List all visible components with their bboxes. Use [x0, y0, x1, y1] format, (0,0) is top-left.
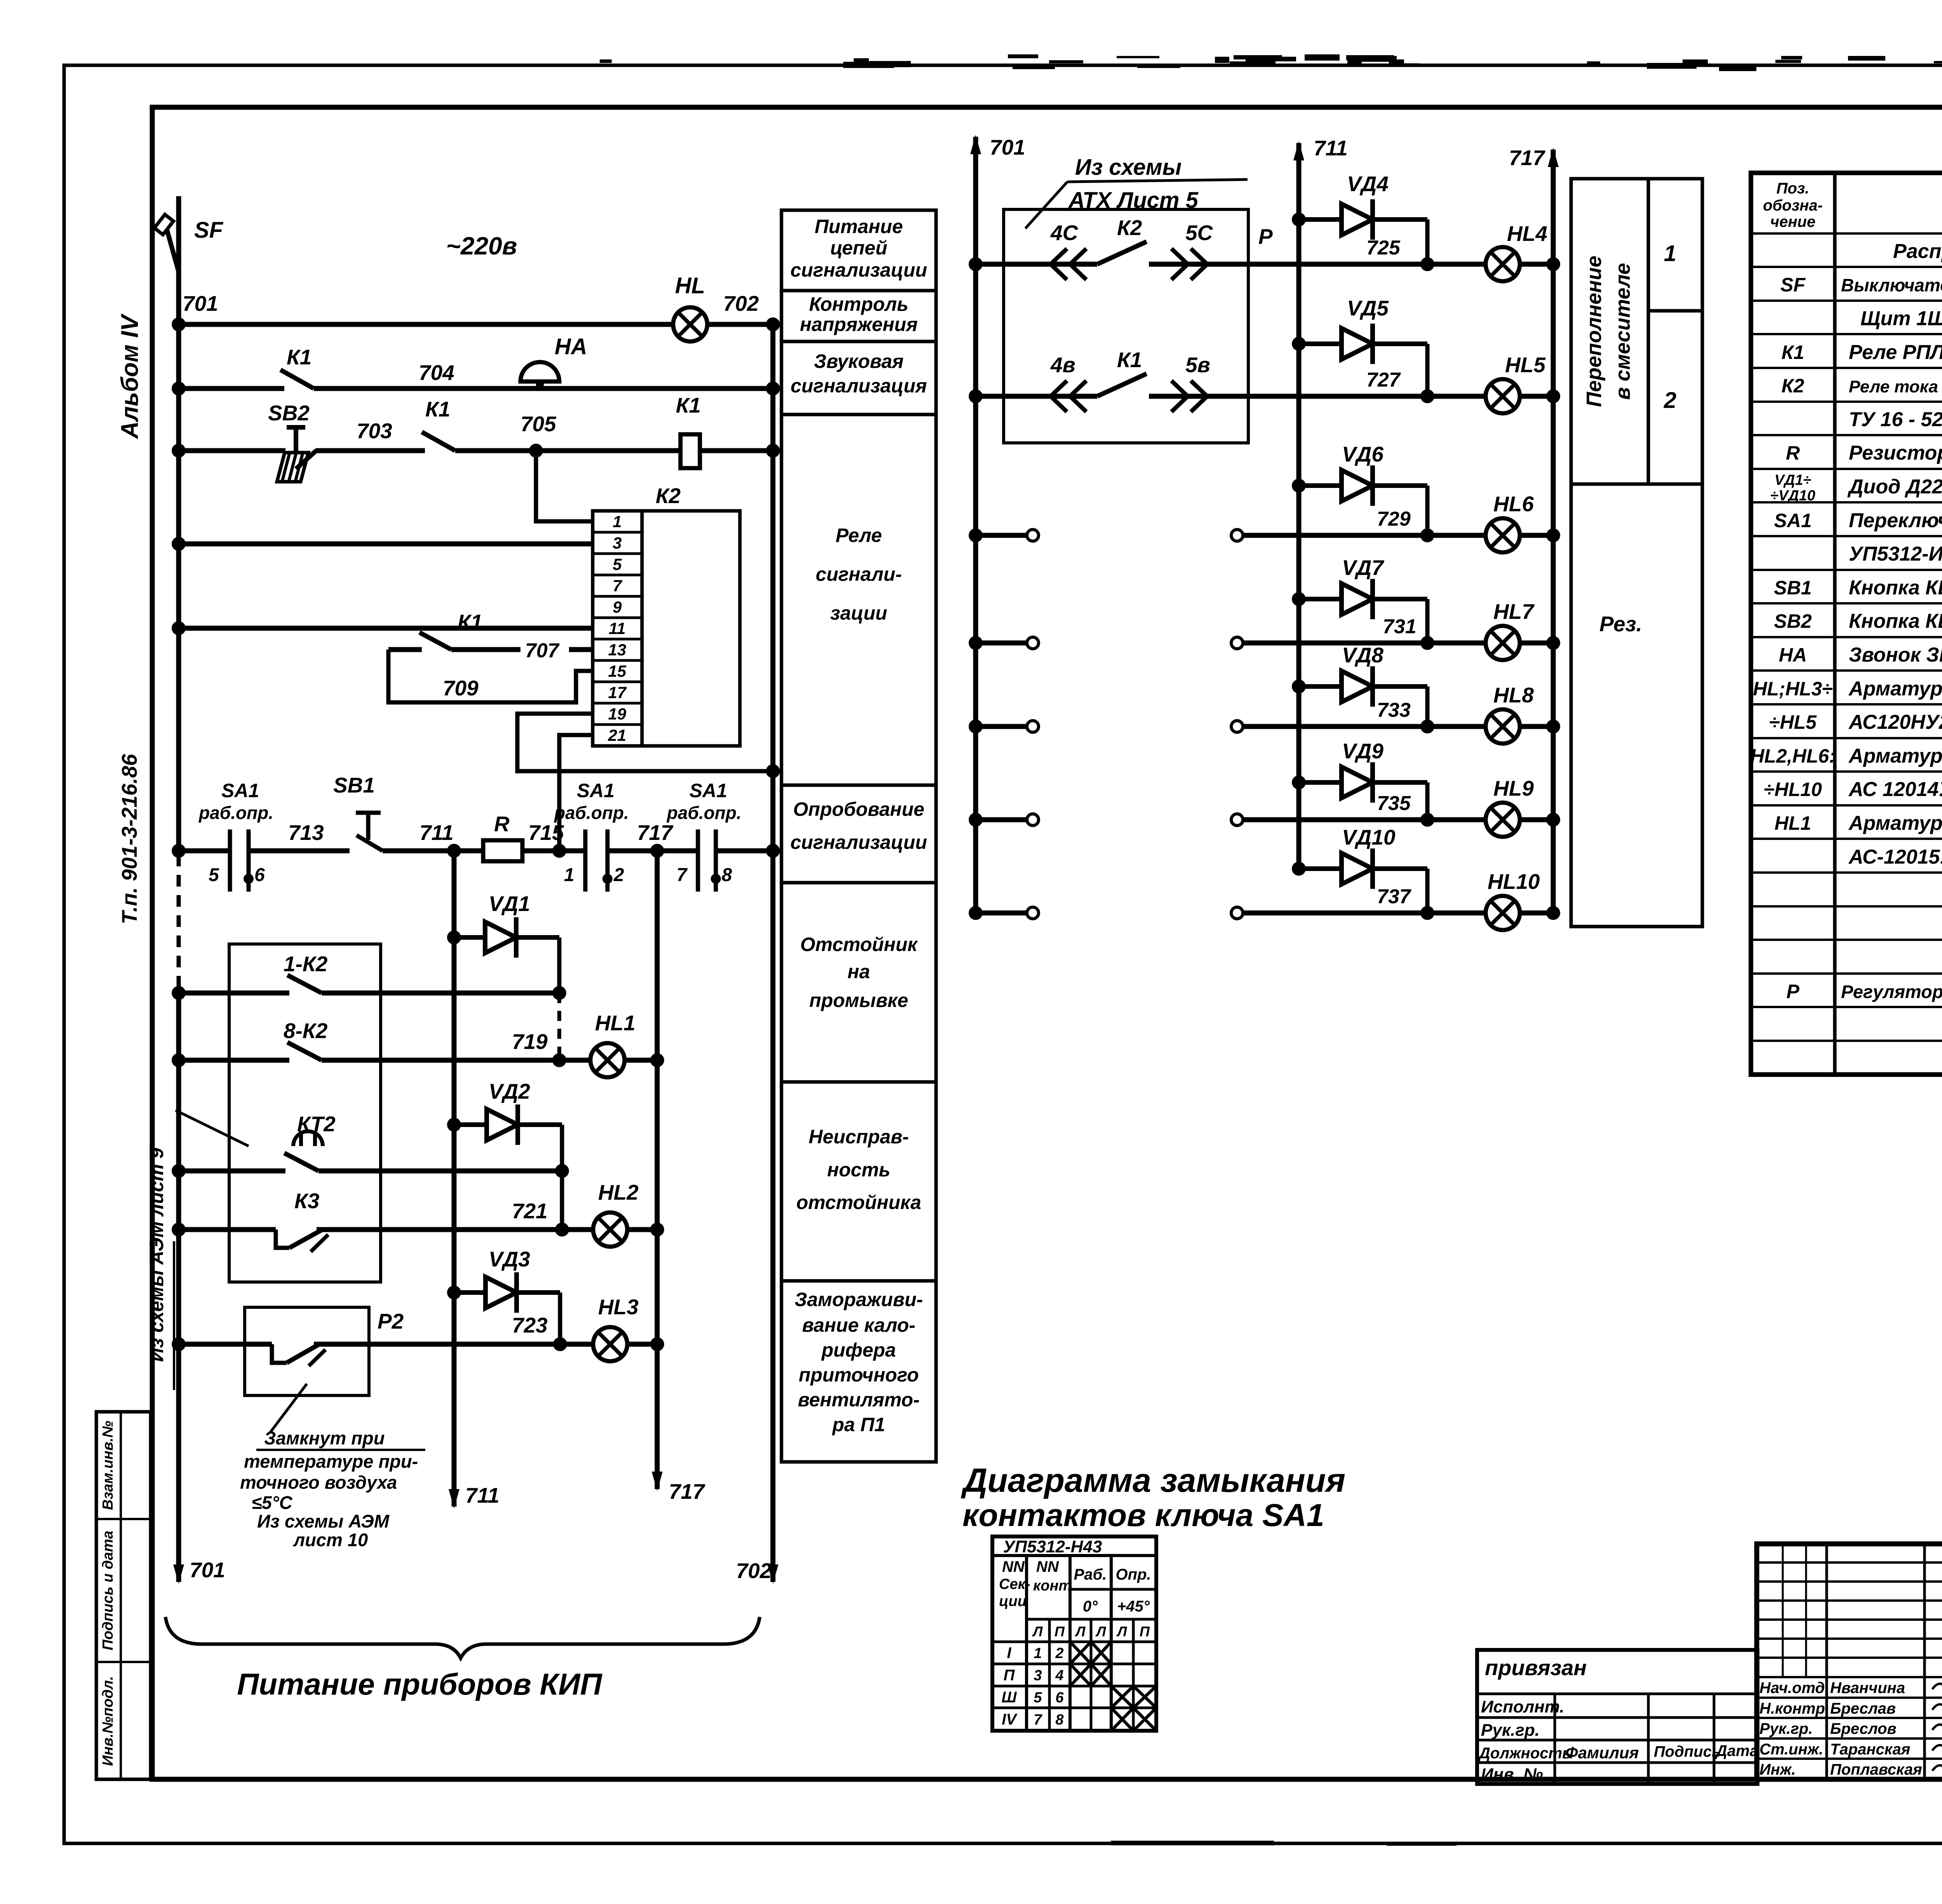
wire rail 717 [655, 851, 660, 1489]
junction [766, 764, 780, 778]
function box Питание [781, 210, 936, 291]
svg-text:HL3: HL3 [598, 1295, 639, 1319]
wire VD3 to rung [558, 1293, 562, 1344]
svg-text:цепей: цепей [830, 237, 887, 259]
svg-text:9: 9 [613, 598, 622, 616]
junction [172, 1164, 186, 1178]
terminal circle row 731 right [1231, 637, 1243, 649]
svg-text:15: 15 [608, 662, 626, 680]
svg-text:привязан: привязан [1485, 1655, 1587, 1680]
arrow end of bus 701 [173, 1564, 184, 1584]
svg-text:7: 7 [677, 865, 688, 885]
parts table frame [1751, 173, 1942, 1075]
junction [766, 444, 780, 458]
contact K3 (NC) [276, 1230, 328, 1252]
junction node 711 [447, 844, 461, 858]
arrow 701 up [970, 135, 981, 154]
svg-text:701: 701 [183, 291, 218, 315]
svg-text:VД4: VД4 [1347, 172, 1389, 196]
svg-text:704: 704 [419, 361, 454, 385]
svg-text:5: 5 [209, 865, 219, 885]
svg-text:Контроль: Контроль [809, 293, 908, 315]
svg-text:NN: NN [1036, 1558, 1059, 1575]
svg-text:напряжения: напряжения [800, 314, 917, 335]
svg-text:723: 723 [512, 1313, 548, 1337]
wire: mid rail 711 [1296, 143, 1302, 869]
svg-text:Бреслав: Бреслав [1830, 1700, 1896, 1717]
svg-text:Щит 1Щ: Щит 1Щ [1860, 307, 1942, 330]
svg-text:717: 717 [1509, 146, 1545, 170]
diode VD1 [454, 917, 559, 958]
svg-text:контактов ключа SA1: контактов ключа SA1 [962, 1498, 1324, 1533]
svg-text:Р2: Р2 [378, 1309, 404, 1333]
svg-text:711: 711 [1314, 136, 1348, 160]
switch contact SA1 5-6 [230, 829, 254, 892]
svg-text:R: R [1786, 442, 1800, 464]
svg-text:Рук.гр.: Рук.гр. [1481, 1721, 1540, 1740]
wire VD5 drop [1425, 344, 1430, 396]
junction [172, 986, 186, 1000]
junction [1546, 528, 1560, 542]
svg-text:Инж.: Инж. [1759, 1761, 1796, 1778]
lamp HL8 [1486, 709, 1520, 744]
pushbutton SB1 (NO) [356, 813, 383, 851]
svg-text:HL7: HL7 [1493, 599, 1535, 624]
function box Реле [781, 415, 936, 785]
diode VД8 [1299, 666, 1427, 707]
svg-text:717: 717 [637, 820, 673, 845]
svg-text:Т.п. 901-3-216.86: Т.п. 901-3-216.86 [117, 754, 141, 925]
wire: right bus rail 702 [771, 324, 776, 1582]
terminal circle row 735 right [1231, 814, 1243, 826]
junction [1420, 719, 1434, 733]
svg-text:Замкнут при: Замкнут при [264, 1428, 385, 1448]
svg-text:точного воздуха: точного воздуха [240, 1472, 397, 1493]
svg-text:HL2,HL6:: HL2,HL6: [1750, 745, 1835, 767]
junction [553, 1337, 567, 1351]
svg-text:HL1: HL1 [1775, 812, 1811, 834]
svg-text:÷HL5: ÷HL5 [1769, 711, 1817, 733]
svg-text:701: 701 [990, 135, 1025, 159]
contact K1 to K2 pin 13 (node 707) [388, 647, 422, 652]
svg-text:13: 13 [608, 641, 626, 659]
svg-text:НА: НА [1779, 644, 1807, 666]
svg-text:Замораживи-: Замораживи- [795, 1289, 923, 1310]
svg-text:Арматура светосигнальная: Арматура светосигнальная [1848, 678, 1942, 700]
svg-text:SA1: SA1 [1774, 510, 1811, 531]
svg-text:обозна-: обозна- [1763, 197, 1823, 214]
svg-text:6: 6 [1055, 1690, 1064, 1706]
svg-text:Бреслов: Бреслов [1830, 1720, 1897, 1737]
svg-text:Ст.инж.: Ст.инж. [1759, 1741, 1823, 1758]
svg-text:8: 8 [722, 865, 732, 885]
svg-text:SF: SF [1780, 274, 1806, 296]
terminal circle row 735 [1027, 814, 1039, 826]
svg-text:731: 731 [1383, 615, 1416, 638]
svg-text:Арматура светосигнальная: Арматура светосигнальная [1848, 812, 1942, 834]
svg-text:19: 19 [608, 705, 626, 723]
svg-text:Л: Л [1095, 1624, 1107, 1639]
svg-text:П: П [1055, 1624, 1065, 1639]
svg-text:Нач.отд: Нач.отд [1759, 1679, 1825, 1697]
lamp HL2 [593, 1212, 627, 1247]
svg-text:Неисправ-: Неисправ- [809, 1126, 909, 1148]
svg-text:Инв. №: Инв. № [1481, 1765, 1543, 1784]
lamp HL [673, 307, 707, 341]
svg-text:Альбом IV: Альбом IV [117, 313, 143, 439]
junction [172, 537, 186, 551]
svg-text:ции: ции [999, 1593, 1027, 1610]
diode VD2 [454, 1104, 562, 1145]
svg-text:ность: ность [827, 1159, 891, 1181]
terminal circle row 731 [1027, 637, 1039, 649]
svg-text:сигнализации: сигнализации [790, 259, 927, 281]
svg-text:HL6: HL6 [1493, 492, 1534, 516]
svg-text:SA1: SA1 [221, 780, 259, 801]
svg-text:713: 713 [288, 820, 324, 845]
svg-text:К1: К1 [676, 393, 701, 417]
svg-text:I: I [1007, 1644, 1011, 1662]
svg-text:промывке: промывке [809, 989, 908, 1011]
switch contact SA1 7-8 [698, 829, 721, 892]
svg-text:≤5°C: ≤5°C [252, 1492, 293, 1513]
arrow end 717 [652, 1472, 663, 1491]
enclosure box ATX [1004, 209, 1248, 443]
svg-text:HL10: HL10 [1488, 869, 1540, 894]
junction [447, 1286, 461, 1300]
svg-text:VД7: VД7 [1342, 556, 1384, 580]
SA1 contact closure table [992, 1536, 1156, 1731]
wire rail 711 [452, 851, 457, 1507]
junction [1546, 906, 1560, 920]
junction [1420, 257, 1434, 271]
svg-text:4в: 4в [1050, 353, 1075, 377]
junction [172, 1053, 186, 1067]
pushbutton SB2 (NC, mushroom) [277, 427, 316, 482]
svg-text:раб.опр.: раб.опр. [198, 803, 273, 823]
svg-text:HL4: HL4 [1507, 221, 1547, 246]
svg-text:725: 725 [1366, 237, 1401, 259]
svg-text:П: П [1140, 1624, 1150, 1639]
svg-text:Звонок ЗВП-220 ТУ16-732.05: Звонок ЗВП-220 ТУ16-732.059-76 [1849, 644, 1942, 666]
wire rung 713-711-715-717 [179, 848, 230, 854]
relay coil K1 [680, 434, 700, 468]
junction [1420, 906, 1434, 920]
junction [447, 1118, 461, 1132]
leader to P2 contact [270, 1384, 307, 1433]
svg-text:приточного: приточного [799, 1364, 919, 1386]
svg-text:Опробование: Опробование [793, 798, 924, 820]
svg-text:IV: IV [1002, 1711, 1018, 1728]
wire VД9 drop [1425, 782, 1430, 820]
svg-text:Питание приборов КИП: Питание приборов КИП [237, 1667, 602, 1701]
svg-text:Рез.: Рез. [1599, 612, 1642, 636]
diode VD5 [1299, 324, 1427, 364]
svg-text:VД9: VД9 [1342, 739, 1383, 763]
svg-text:Нванчина: Нванчина [1830, 1679, 1905, 1697]
enclosure box around P2 [245, 1307, 369, 1395]
junction [1546, 636, 1560, 650]
svg-text:НА: НА [555, 334, 587, 359]
svg-text:Раб.: Раб. [1074, 1566, 1107, 1583]
wire VД8 drop [1425, 686, 1430, 726]
svg-text:1: 1 [1664, 241, 1676, 266]
wire rung 721 [179, 1227, 276, 1232]
svg-text:УП5312-Н43: УП5312-Н43 [1003, 1537, 1102, 1556]
svg-text:раб.опр.: раб.опр. [553, 803, 629, 823]
diode VД9 [1299, 762, 1427, 803]
svg-text:К2: К2 [1782, 375, 1805, 397]
svg-text:0°: 0° [1083, 1598, 1098, 1615]
svg-text:2: 2 [1055, 1645, 1063, 1662]
svg-text:729: 729 [1377, 508, 1411, 530]
svg-text:HL1: HL1 [595, 1011, 635, 1035]
left margin stamp strip [96, 1412, 151, 1779]
svg-text:К2: К2 [1117, 216, 1142, 240]
svg-text:Кнопка КЕ-011У3 ТУ16-526.407: Кнопка КЕ-011У3 ТУ16-526.407-79 [1849, 577, 1942, 599]
wire: mid rail 717 [1551, 150, 1556, 913]
svg-text:К1: К1 [425, 397, 450, 421]
svg-text:4С: 4С [1050, 221, 1079, 245]
junction [1420, 813, 1434, 827]
svg-text:Распределительный пункт ПР2: Распределительный пункт ПР2 [1893, 240, 1942, 263]
wire: left bus rail 701 [176, 196, 181, 855]
diode VД6 [1299, 465, 1427, 506]
svg-text:АС-12015У2 ТУ16-535.930-76: АС-12015У2 ТУ16-535.930-76 [1848, 846, 1942, 868]
svg-text:Отстойник: Отстойник [800, 934, 918, 955]
svg-text:8: 8 [1055, 1712, 1064, 1728]
brace питание приборов КИП [165, 1617, 760, 1658]
diode VD3 [454, 1272, 560, 1313]
block привязан [1477, 1650, 1758, 1784]
junction [552, 986, 566, 1000]
wire rung 1-K2 [179, 991, 289, 996]
contact K1 (NO) [422, 432, 455, 451]
wire stub row 733 [976, 724, 1027, 729]
junction [1292, 337, 1306, 351]
svg-text:1: 1 [564, 865, 574, 885]
contact 8-K2 (NO) [287, 1042, 322, 1060]
lamp HL7 [1486, 626, 1520, 660]
junction [172, 317, 186, 331]
svg-text:Поз.: Поз. [1777, 180, 1810, 197]
svg-text:Фамилия: Фамилия [1565, 1744, 1639, 1762]
svg-text:Диаграмма замыкания: Диаграмма замыкания [961, 1462, 1345, 1499]
svg-text:7: 7 [613, 577, 622, 595]
terminal block K2 [642, 511, 740, 746]
svg-text:HL;HL3÷: HL;HL3÷ [1753, 678, 1832, 700]
svg-text:SB2: SB2 [268, 401, 310, 425]
svg-text:Из схемы: Из схемы [1075, 155, 1182, 180]
wire stub row 731 [976, 641, 1027, 646]
svg-text:HL8: HL8 [1493, 683, 1534, 707]
svg-text:702: 702 [736, 1559, 772, 1583]
arrow 717 up [1548, 148, 1559, 167]
svg-text:VД1: VД1 [489, 892, 530, 916]
svg-text:вентилято-: вентилято- [798, 1389, 920, 1411]
wire: mid rail 701 [973, 137, 978, 913]
svg-text:раб.опр.: раб.опр. [666, 803, 741, 823]
svg-text:Взам.инв.№: Взам.инв.№ [100, 1421, 116, 1510]
lamp HL1 [590, 1043, 625, 1077]
svg-text:737: 737 [1377, 885, 1411, 908]
junction [650, 1337, 664, 1351]
terminal circle row 737 [1027, 907, 1039, 919]
svg-text:SA1: SA1 [577, 780, 614, 801]
wire VД6 drop [1425, 486, 1430, 535]
svg-text:717: 717 [669, 1479, 705, 1503]
bell HA [520, 362, 559, 390]
function box Отстойник [781, 883, 936, 1082]
svg-text:21: 21 [608, 726, 626, 744]
function box Опробование [781, 785, 936, 883]
svg-text:чение: чение [1770, 213, 1815, 230]
svg-text:VД10: VД10 [1342, 825, 1396, 849]
junction [172, 381, 186, 395]
svg-text:К2: К2 [656, 484, 681, 508]
svg-text:Н.контр: Н.контр [1759, 1700, 1825, 1717]
box Рез. [1571, 484, 1702, 927]
junction [447, 930, 461, 944]
junction [650, 1223, 664, 1237]
svg-text:1: 1 [1034, 1645, 1042, 1662]
junction node 715 [552, 844, 566, 858]
junction [555, 1164, 569, 1178]
junction [172, 1337, 186, 1351]
svg-text:Подпись и дата: Подпись и дата [100, 1531, 116, 1650]
wire K2 pin 19 to right rail [517, 714, 773, 771]
svg-text:HL: HL [675, 273, 705, 298]
svg-text:рифера: рифера [821, 1339, 896, 1361]
title block [1757, 1544, 1942, 1779]
svg-text:709: 709 [443, 676, 479, 700]
lamp HL9 [1486, 803, 1520, 837]
diode VД7 [1299, 579, 1427, 619]
junction [650, 1053, 664, 1067]
svg-text:Из схемы АЭМ: Из схемы АЭМ [257, 1511, 390, 1531]
svg-text:Л: Л [1032, 1624, 1043, 1639]
svg-text:Переполнение: Переполнение [1582, 256, 1606, 407]
junction [1420, 389, 1434, 403]
svg-text:721: 721 [512, 1199, 548, 1223]
diode VД10 [1299, 848, 1427, 889]
svg-text:Звуковая: Звуковая [814, 350, 904, 372]
svg-text:HL9: HL9 [1493, 776, 1534, 800]
time contact KT2 [284, 1131, 323, 1171]
svg-text:HL5: HL5 [1505, 353, 1546, 377]
svg-text:Реле РПЛ-14004БТУ16-523.554-78: Реле РПЛ-14004БТУ16-523.554-78 [1849, 341, 1942, 364]
svg-text:Инв.№подл.: Инв.№подл. [100, 1676, 116, 1766]
svg-text:7: 7 [1034, 1712, 1042, 1728]
wire row 727 [1248, 394, 1487, 399]
wire VД7 drop [1425, 599, 1430, 643]
wire KT2 rung to rung 721 [560, 1171, 564, 1230]
svg-text:VД6: VД6 [1342, 442, 1383, 466]
function box Неисправ- [781, 1082, 936, 1281]
junction node 705 [529, 444, 543, 458]
svg-text:К1: К1 [458, 610, 482, 634]
wire rung 703-705 [179, 448, 285, 453]
svg-text:719: 719 [512, 1030, 548, 1054]
svg-text:1: 1 [613, 512, 621, 531]
junction [172, 621, 186, 635]
wire rung 723 [179, 1342, 272, 1347]
svg-text:вание кало-: вание кало- [802, 1314, 915, 1336]
junction [1546, 813, 1560, 827]
svg-text:ра П1: ра П1 [832, 1414, 885, 1435]
svg-text:Дата: Дата [1715, 1742, 1758, 1759]
leader line to contact box [176, 1110, 249, 1146]
junction [1546, 257, 1560, 271]
svg-text:VД2: VД2 [489, 1079, 530, 1103]
function box Звуковая [781, 341, 936, 415]
svg-text:Ш: Ш [1001, 1689, 1017, 1706]
svg-text:5: 5 [613, 555, 622, 573]
svg-text:17: 17 [608, 683, 627, 702]
svg-text:АС120НУ2 ТУ16-535.930-76: АС120НУ2 ТУ16-535.930-76 [1848, 711, 1942, 733]
svg-text:Р: Р [1786, 981, 1799, 1002]
svg-text:сигнализации: сигнализации [790, 831, 927, 853]
svg-text:Реле: Реле [835, 524, 882, 546]
svg-text:Исполнт.: Исполнт. [1481, 1697, 1564, 1716]
svg-text:К1: К1 [1117, 348, 1142, 372]
svg-text:температуре при-: температуре при- [244, 1451, 418, 1472]
wire VД10 drop [1425, 869, 1430, 913]
svg-text:3: 3 [613, 534, 621, 552]
junction [1546, 389, 1560, 403]
junction [766, 381, 780, 395]
enclosure box around remote contacts [229, 944, 381, 1282]
svg-text:VД5: VД5 [1347, 296, 1389, 320]
svg-text:2: 2 [1664, 388, 1676, 413]
svg-text:5в: 5в [1185, 353, 1210, 377]
svg-text:1-К2: 1-К2 [284, 952, 328, 976]
svg-text:Л: Л [1116, 1624, 1128, 1639]
svg-text:VД1÷: VД1÷ [1775, 472, 1811, 488]
svg-text:Л: Л [1075, 1624, 1086, 1639]
svg-text:Подпись: Подпись [1654, 1743, 1721, 1760]
arrow 711 up [1293, 141, 1304, 160]
terminal circle row 729 [1027, 530, 1039, 541]
svg-text:707: 707 [525, 639, 560, 662]
svg-text:отстойника: отстойника [796, 1192, 921, 1213]
junction [172, 844, 186, 858]
svg-text:К1: К1 [1782, 341, 1805, 363]
separable contact 4B-K1-5B [976, 394, 1097, 399]
svg-text:SВ1: SВ1 [1774, 577, 1811, 599]
junction [766, 317, 780, 331]
svg-text:конт.: конт. [1033, 1578, 1075, 1594]
arrow end of bus 702 [767, 1564, 778, 1584]
svg-text:VД8: VД8 [1342, 643, 1383, 667]
function box Контроль [781, 291, 936, 341]
wire rung 719 [179, 1058, 289, 1063]
resistor R [483, 840, 522, 861]
svg-text:Питание: Питание [814, 216, 903, 237]
svg-text:735: 735 [1377, 792, 1411, 815]
svg-text:2: 2 [613, 865, 624, 885]
svg-text:Регулятор сигнализатор уровня: Регулятор сигнализатор уровня ЭРСУ3 [1841, 981, 1942, 1002]
wire row 725 [1248, 262, 1487, 267]
svg-text:6: 6 [254, 865, 265, 885]
wire K2 pin 21 down to node 715 [559, 735, 593, 851]
svg-text:в смесителе: в смесителе [1611, 263, 1634, 400]
wire stub row 729 [976, 533, 1027, 538]
wire rung KT2 [179, 1169, 285, 1174]
wire VD1 to rung [557, 937, 562, 993]
wire stub row 737 [976, 911, 1027, 916]
svg-text:АС 12014У2 ТУ16-535.930-76: АС 12014У2 ТУ16-535.930-76 [1848, 778, 1942, 801]
